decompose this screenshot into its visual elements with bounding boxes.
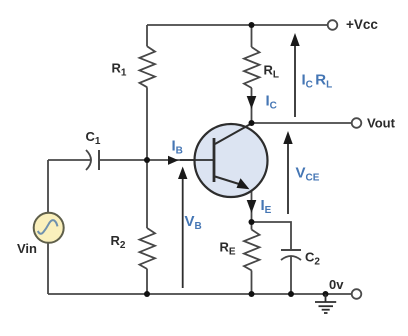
svg-text:C2: C2 [305,250,320,268]
wire: C1 to transistor base [99,159,213,161]
svg-text:Vin: Vin [17,241,37,256]
svg-text:0v: 0v [329,277,344,292]
wire: input to C1 [48,159,91,161]
resistor RE [244,230,260,271]
svg-text:VCE: VCE [296,165,320,184]
transistor Q1 emitter line with arrow [215,177,239,185]
wire: Vin bottom to ground rail [47,243,49,294]
arrow IC (collector current) [247,96,257,109]
node: top rail / RL junction [249,22,255,28]
wire: emitter node branch to C2 [252,222,292,250]
capacitor C2 curved plate [281,256,301,260]
svg-text:RE: RE [220,240,236,258]
arrow VCE (collector-emitter voltage, pointing up) [287,143,289,214]
svg-text:VB: VB [185,213,202,232]
capacitor C1 curved plate [86,150,91,170]
svg-text:IC RL: IC RL [302,72,333,91]
svg-text:C1: C1 [86,129,101,147]
svg-text:RL: RL [264,63,280,81]
svg-text:R2: R2 [111,233,126,251]
wire: R1 bottom to base node [146,87,148,160]
wire: collector node to Vout terminal [252,122,353,124]
capacitor C2 straight plate [281,249,301,251]
node: RE ground junction [249,291,255,297]
node: ground symbol junction [323,291,329,297]
wire: base node to R2 top [146,160,148,228]
transistor Q1 base bar [213,138,216,182]
svg-text:R1: R1 [112,61,127,79]
node: C2 ground junction [288,291,294,297]
node: base junction [144,157,150,163]
wire: input left vertical (Vin branch top) [47,160,49,213]
node: R2 ground junction [144,291,150,297]
svg-text:+Vcc: +Vcc [346,17,378,32]
wire: R2 bottom lead [146,269,148,294]
terminal Vout [352,118,362,128]
arrow VB (base voltage, pointing up) [182,178,184,288]
wire: emitter vertical to emitter node (IE arrow) [251,190,253,222]
svg-text:IC: IC [266,93,277,112]
resistor R1 [140,46,156,87]
resistor R2 [140,228,156,269]
transistor Q1 body [195,124,268,197]
capacitor C1 straight plate [98,150,100,170]
wire: emitter node to RE top [251,222,253,230]
transistor Q1 collector line [215,124,252,145]
node: emitter branch junction [249,219,255,225]
wire: RL bottom to collector node (IC arrow) [251,88,253,123]
svg-text:IB: IB [172,138,183,157]
source Vin [34,213,64,243]
wire: RE bottom lead [251,271,253,295]
arrow IB (base current) [168,156,179,165]
terminal +Vcc [328,20,338,30]
arrow IC RL (voltage across RL, pointing up) [294,45,296,117]
node: collector / Vout junction [249,120,255,126]
wire: top rail from R1 top to +Vcc terminal [147,24,328,26]
terminal 0v [352,289,362,299]
svg-text:IE: IE [261,197,272,216]
ground symbol [315,294,336,313]
wire: R1 upper lead [146,25,148,46]
resistor RL [244,47,260,88]
wire: C2 bottom lead [290,256,292,294]
wire: ground rail [48,293,352,295]
svg-text:Vout: Vout [367,116,396,131]
transistor Q1 base lead inside body [180,159,213,161]
wire: top rail to RL top [251,25,253,47]
arrow IE (emitter current) [247,200,257,213]
